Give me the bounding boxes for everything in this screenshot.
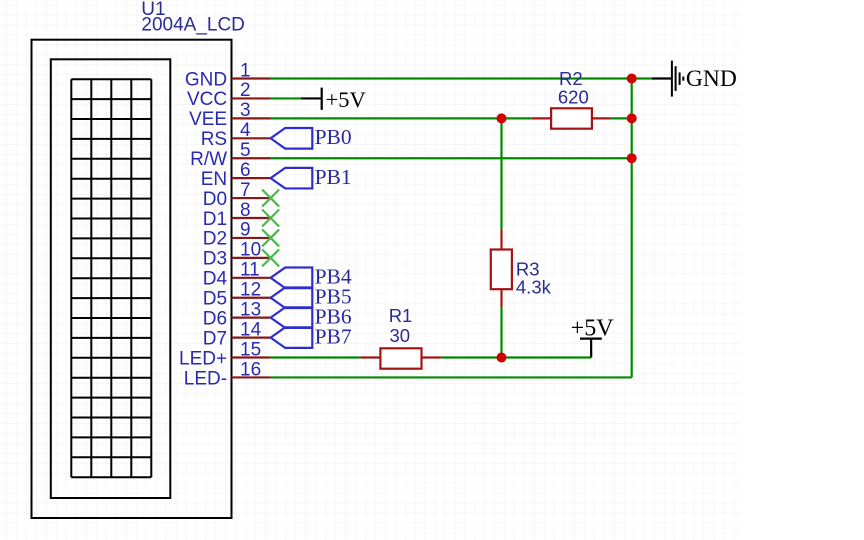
- svg-text:10: 10: [240, 240, 261, 261]
- port flag PB0 (pin 4): [271, 128, 313, 149]
- pin 11 (D4) stub: [232, 277, 271, 279]
- svg-text:15: 15: [240, 339, 261, 360]
- svg-text:LED-: LED-: [184, 368, 227, 389]
- no-connect cross pin 9: [262, 229, 279, 246]
- pin 2 (VCC) stub: [232, 97, 271, 99]
- svg-text:4: 4: [240, 120, 251, 141]
- svg-text:R/W: R/W: [190, 149, 227, 170]
- junction LED+/R3: [497, 353, 507, 363]
- svg-text:+5V: +5V: [571, 315, 615, 341]
- pin 3 (VEE) stub: [232, 117, 271, 119]
- wire GND pin1 to ground symbol: [271, 77, 652, 79]
- port flag PB4 (pin 11): [271, 268, 313, 289]
- resistor R3 leads: [500, 229, 502, 307]
- svg-text:8: 8: [240, 200, 251, 221]
- pin 4 (RS) stub: [232, 137, 271, 139]
- svg-text:14: 14: [240, 319, 262, 340]
- svg-text:2004A_LCD: 2004A_LCD: [141, 14, 245, 35]
- svg-text:D4: D4: [203, 269, 228, 290]
- svg-text:30: 30: [390, 325, 411, 346]
- resistor R1 leads: [360, 356, 441, 358]
- svg-text:D5: D5: [203, 289, 227, 310]
- resistor R3 body: [491, 250, 512, 290]
- wire LED+ pin15 to R1 left: [271, 356, 361, 358]
- wire R2 right to GND trunk: [610, 117, 631, 119]
- svg-text:7: 7: [240, 180, 251, 201]
- power port GND: [652, 61, 684, 97]
- svg-text:RS: RS: [201, 129, 227, 150]
- svg-text:4.3k: 4.3k: [516, 276, 552, 297]
- svg-text:D2: D2: [203, 229, 227, 250]
- power port +5V (VCC pin2): [301, 88, 322, 110]
- wire LED- pin16 to GND trunk: [271, 376, 632, 378]
- LCD module U1 body: [32, 40, 232, 518]
- junction GND top: [627, 74, 637, 84]
- svg-text:GND: GND: [185, 69, 227, 90]
- svg-text:+5V: +5V: [326, 87, 366, 112]
- svg-text:1: 1: [240, 60, 251, 81]
- svg-text:13: 13: [240, 299, 261, 320]
- svg-text:PB0: PB0: [315, 125, 352, 149]
- pin 7 (D0) stub: [232, 197, 271, 199]
- svg-text:VCC: VCC: [187, 89, 227, 110]
- junction R/W: [627, 153, 637, 163]
- svg-text:16: 16: [240, 359, 261, 380]
- junction VEE/R3: [497, 113, 507, 123]
- pin 16 (LED-) stub: [232, 376, 271, 378]
- wire R/W pin5 to GND trunk: [271, 157, 632, 159]
- resistor R2 body: [551, 108, 592, 128]
- svg-text:6: 6: [240, 160, 251, 181]
- svg-text:2: 2: [240, 80, 251, 101]
- pin 14 (D7) stub: [232, 336, 271, 338]
- svg-text:D0: D0: [203, 189, 227, 210]
- junction R2 right: [627, 113, 637, 123]
- port flag PB1 (pin 6): [271, 168, 313, 189]
- wire R1 right to +5V: [441, 356, 591, 358]
- svg-text:11: 11: [240, 260, 260, 281]
- pin 12 (D5) stub: [232, 297, 271, 299]
- svg-text:LED+: LED+: [179, 348, 227, 369]
- port flag PB7 (pin 14): [271, 327, 313, 348]
- pin 1 (GND) stub: [232, 77, 271, 79]
- wire VEE pin3 to R2 left: [271, 117, 532, 119]
- resistor R2 leads: [532, 117, 611, 119]
- svg-text:D7: D7: [203, 328, 227, 349]
- resistor R1 body: [380, 348, 421, 368]
- svg-text:3: 3: [240, 100, 251, 121]
- svg-text:VEE: VEE: [189, 109, 227, 130]
- pin 15 (LED+) stub: [232, 356, 271, 358]
- port flag PB5 (pin 12): [271, 287, 313, 308]
- svg-text:5: 5: [240, 140, 251, 161]
- svg-text:D3: D3: [203, 249, 227, 270]
- pin 13 (D6) stub: [232, 317, 271, 319]
- power port +5V (LED+ net): [580, 339, 602, 358]
- pin 5 (R/W) stub: [232, 157, 271, 159]
- svg-text:R1: R1: [389, 305, 413, 326]
- no-connect cross pin 7: [262, 190, 279, 207]
- wire VCC pin2 to +5V: [271, 97, 301, 99]
- pin 10 (D3) stub: [232, 257, 271, 259]
- pin 9 (D2) stub: [232, 237, 271, 239]
- svg-text:620: 620: [558, 87, 589, 108]
- svg-text:D1: D1: [203, 209, 227, 230]
- svg-text:D6: D6: [203, 308, 227, 329]
- svg-text:PB1: PB1: [315, 165, 352, 189]
- port flag PB6 (pin 13): [271, 307, 313, 328]
- svg-text:EN: EN: [201, 169, 227, 190]
- no-connect cross pin 8: [262, 210, 279, 227]
- wire VEE junction down to R3 top: [500, 118, 502, 229]
- pin 8 (D1) stub: [232, 217, 271, 219]
- wire R3 bottom to LED+ net: [500, 307, 502, 357]
- wire GND vertical trunk: [631, 79, 633, 378]
- svg-text:12: 12: [240, 280, 261, 301]
- svg-text:9: 9: [240, 220, 251, 241]
- svg-text:PB7: PB7: [315, 324, 352, 348]
- no-connect cross pin 10: [262, 249, 279, 266]
- svg-text:GND: GND: [686, 66, 737, 92]
- pin 6 (EN) stub: [232, 177, 271, 179]
